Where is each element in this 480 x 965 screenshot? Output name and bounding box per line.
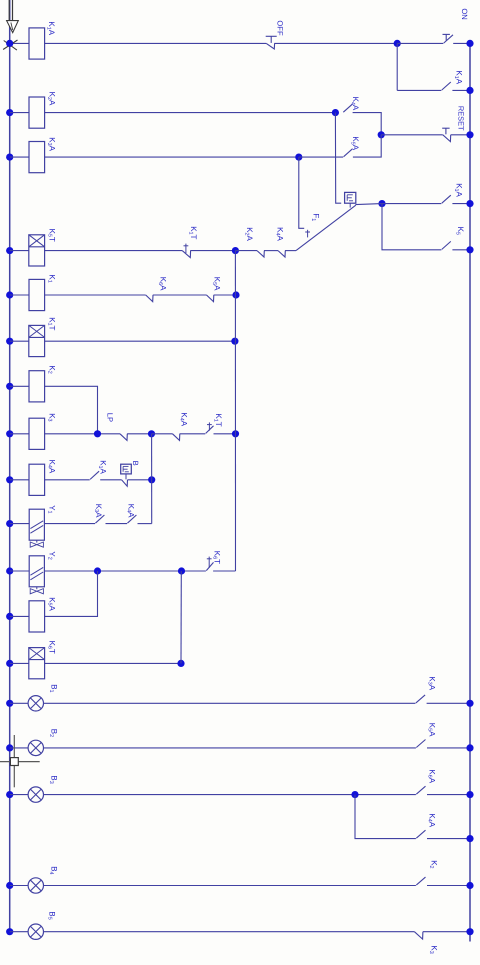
overload F1 sensor box bbox=[345, 192, 356, 203]
node rail rung1 bbox=[6, 40, 13, 47]
svg-text:K2A: K2A bbox=[46, 92, 56, 106]
lamp rung B1 wire left bbox=[10, 702, 28, 704]
svg-text:K4A: K4A bbox=[125, 504, 135, 518]
node rail K5 bbox=[466, 246, 473, 253]
rung 2 wire middle bbox=[45, 112, 336, 114]
node rail rung7 bbox=[6, 338, 13, 345]
svg-text:K4A: K4A bbox=[46, 460, 56, 474]
svg-text:K3: K3 bbox=[46, 413, 56, 421]
svg-text:K4A: K4A bbox=[350, 97, 360, 111]
node rail rung6 bbox=[6, 291, 13, 298]
contact K6A (NC) bbox=[146, 295, 153, 302]
contact K5 (NO) bbox=[442, 241, 451, 249]
node rung10 right bbox=[148, 476, 155, 483]
contact K2 (NO) bbox=[416, 877, 425, 885]
svg-text:F1: F1 bbox=[310, 213, 320, 221]
rung 6 wire left bbox=[10, 294, 29, 296]
contact K4A (NO) bbox=[416, 830, 425, 838]
svg-text:Y1: Y1 bbox=[46, 505, 56, 513]
svg-text:K5: K5 bbox=[455, 227, 465, 235]
vertical wire rung9 to rung11 bbox=[151, 434, 153, 524]
svg-text:OFF: OFF bbox=[276, 20, 285, 36]
svg-text:K1: K1 bbox=[46, 274, 56, 282]
rung 11 wire left bbox=[10, 523, 30, 525]
rung 10 wire left bbox=[10, 479, 29, 481]
rung 12 wire bbox=[44, 570, 206, 572]
lamp B4 bbox=[28, 878, 43, 893]
lamp rung B5 wire left bbox=[10, 931, 28, 933]
node rail K1A bbox=[466, 200, 473, 207]
node rail rung14 bbox=[6, 660, 13, 667]
branch wire to K1A seal contact bbox=[396, 43, 398, 90]
contact K5A (NC) bbox=[207, 295, 214, 302]
relay coil K5A bbox=[29, 601, 45, 632]
rung 1 wire right bbox=[274, 42, 397, 44]
rung 7 wire left bbox=[10, 340, 29, 342]
wire K6T up to bus bbox=[213, 570, 235, 572]
node rail RESET bbox=[466, 131, 473, 138]
svg-text:B5: B5 bbox=[46, 911, 56, 919]
svg-text:K5A: K5A bbox=[427, 723, 437, 737]
node rung2-K4A bbox=[332, 109, 339, 116]
cursor arrow at top of left rail bbox=[8, 0, 10, 21]
svg-text:K6T: K6T bbox=[211, 551, 221, 564]
svg-text:B1: B1 bbox=[48, 684, 58, 692]
svg-text:K1T: K1T bbox=[188, 226, 198, 239]
contact K5A (NO) bbox=[416, 740, 425, 748]
svg-text:K5A: K5A bbox=[350, 136, 360, 150]
svg-text:ON: ON bbox=[460, 8, 469, 19]
node rung14 right bbox=[177, 660, 184, 667]
svg-text:K3A: K3A bbox=[93, 504, 103, 518]
contact K5A (NO) bbox=[344, 149, 353, 157]
node rail lamp B1 bbox=[6, 700, 13, 707]
relay coil K3 bbox=[29, 418, 45, 449]
lamp rung B2 wire left bbox=[10, 747, 28, 749]
node rail rung11 bbox=[6, 520, 13, 527]
relay coil K2A bbox=[29, 97, 45, 128]
lamp B1 bbox=[28, 696, 43, 711]
lamp rung B3 wire left bbox=[10, 794, 28, 796]
relay coil K3A bbox=[29, 142, 45, 173]
svg-text:B4: B4 bbox=[48, 866, 58, 874]
pushbutton ON (NO) bbox=[444, 35, 453, 43]
node rail rung8 bbox=[6, 383, 13, 390]
rung 5 wire 2 bbox=[190, 250, 235, 252]
node rail B4 bbox=[466, 882, 473, 889]
svg-text:K4A: K4A bbox=[178, 412, 188, 426]
contact K2A (NC) bbox=[257, 251, 264, 257]
svg-text:K2: K2 bbox=[428, 860, 438, 868]
rung 14 wire left bbox=[10, 662, 29, 664]
contact K6T (NO timed) bbox=[206, 562, 213, 570]
rung 3 wire left bbox=[10, 156, 29, 158]
rung 6 wire bbox=[45, 294, 146, 296]
svg-text:K1A: K1A bbox=[97, 460, 107, 474]
svg-text:K2A: K2A bbox=[244, 227, 254, 241]
contact K6A (NO) bbox=[416, 786, 425, 794]
node rail rung2 bbox=[6, 109, 13, 116]
svg-text:K5A: K5A bbox=[211, 277, 221, 291]
relay coil K1A bbox=[29, 28, 45, 59]
solenoid valve coil Y2 bbox=[29, 556, 44, 587]
relay coil K1 bbox=[29, 279, 45, 310]
pressure switch B (NC) bbox=[122, 480, 128, 486]
lamp B5 bbox=[28, 924, 43, 939]
node rail ON bbox=[466, 40, 473, 47]
node rail B5 bbox=[466, 928, 473, 935]
svg-text:Y2: Y2 bbox=[46, 551, 56, 559]
svg-text:K3: K3 bbox=[428, 945, 438, 953]
left power rail bbox=[9, 0, 11, 932]
contact K3A (NO) bbox=[416, 695, 425, 703]
lamp B5 wire bbox=[44, 931, 415, 933]
contact K4A (NC) bbox=[278, 251, 285, 257]
rung 7 wire bbox=[45, 340, 235, 342]
node reset bbox=[378, 131, 385, 138]
lamp B3 wire bbox=[44, 794, 416, 796]
lamp B3 bbox=[28, 787, 43, 802]
contact K3A (NO) bbox=[95, 515, 104, 523]
node rung12 mid bbox=[178, 567, 185, 574]
wire F1 to node bbox=[355, 204, 382, 205]
node rung1-branch bbox=[394, 40, 401, 47]
svg-text:RESET: RESET bbox=[456, 106, 465, 131]
stub from rung2 down to F1 bbox=[335, 113, 341, 204]
svg-text:K1T: K1T bbox=[213, 413, 223, 426]
node rung7 bbox=[231, 338, 238, 345]
node rail rung5 bbox=[6, 247, 13, 254]
rung 5 wire bbox=[45, 250, 183, 252]
contact K3 (NC) bbox=[414, 932, 423, 939]
svg-text:K1A: K1A bbox=[46, 21, 56, 35]
node rung9-K2branch bbox=[94, 430, 101, 437]
node rail B2 bbox=[466, 744, 473, 751]
node rail rung10 bbox=[6, 476, 13, 483]
svg-text:K6T: K6T bbox=[46, 641, 56, 654]
node rail B3 bbox=[466, 791, 473, 798]
rung 8 wire bbox=[45, 386, 98, 434]
rung 2 wire left bbox=[10, 112, 29, 114]
pushbutton OFF (NC) bbox=[266, 43, 274, 49]
crosshair cursor bbox=[13, 735, 15, 787]
wire to K1A contact bbox=[382, 203, 441, 205]
wire up to reset node bbox=[353, 135, 381, 157]
contact K1T (NC timed) bbox=[182, 251, 190, 258]
pushbutton RESET (NC) bbox=[443, 135, 451, 142]
vertical bus wire bbox=[234, 251, 236, 571]
lamp B4 wire bbox=[44, 885, 416, 887]
relay coil K2 bbox=[29, 371, 45, 402]
lamp B1 wire bbox=[44, 702, 416, 704]
node rail lamp B2 bbox=[6, 744, 13, 751]
rung 9 wire bbox=[45, 433, 120, 435]
node rung12 left bbox=[94, 567, 101, 574]
lamp B2 wire bbox=[44, 747, 416, 749]
svg-text:K4A: K4A bbox=[427, 813, 437, 827]
svg-text:K5T: K5T bbox=[47, 229, 57, 242]
svg-text:K3A: K3A bbox=[427, 676, 437, 690]
rung 5 wire left bbox=[10, 250, 29, 252]
svg-text:B2: B2 bbox=[48, 729, 58, 737]
rung 10 wire bbox=[45, 479, 90, 481]
svg-text:K5A: K5A bbox=[46, 597, 56, 611]
node rail lamp B5 bbox=[6, 928, 13, 935]
node B3 branch bbox=[351, 791, 358, 798]
rung 1 wire middle bbox=[45, 42, 267, 44]
rung 9 wire left bbox=[10, 433, 29, 435]
node rail K1A seal bbox=[466, 87, 473, 94]
selection cross on node bbox=[3, 40, 17, 50]
timer coil K5T bbox=[29, 235, 45, 266]
svg-text:K6A: K6A bbox=[157, 277, 167, 291]
vertical wire rung12 to rung14 bbox=[180, 571, 182, 663]
svg-text:K3A: K3A bbox=[46, 137, 56, 151]
svg-text:K2: K2 bbox=[46, 365, 56, 373]
timer coil K1T bbox=[29, 325, 45, 356]
node rung9 right bbox=[232, 430, 239, 437]
solenoid valve coil Y1 bbox=[29, 509, 44, 540]
svg-text:K1T: K1T bbox=[46, 317, 56, 330]
rung 14 wire bbox=[45, 662, 181, 664]
node rail lamp B3 bbox=[6, 791, 13, 798]
wire reset bbox=[381, 134, 443, 136]
rung 8 wire left bbox=[10, 385, 29, 387]
wire to reset node bbox=[353, 113, 382, 135]
node rail rung9 bbox=[6, 430, 13, 437]
contact K4A (NO) bbox=[343, 104, 352, 112]
node rail rung12 bbox=[6, 567, 13, 574]
timer coil K6T bbox=[29, 648, 45, 679]
contact K1A (NO) bbox=[442, 195, 451, 203]
svg-text:B3: B3 bbox=[48, 775, 58, 783]
svg-text:K4A: K4A bbox=[275, 227, 285, 241]
node rail rung3 bbox=[6, 154, 13, 161]
rung 1 wire left bbox=[10, 42, 29, 44]
rung 3 wire middle bbox=[45, 156, 299, 158]
contact K1A seal (NO) bbox=[442, 82, 451, 90]
overload contact F1 blade bbox=[296, 205, 356, 250]
contact K1T (NO timed) bbox=[206, 426, 214, 434]
svg-text:K6A: K6A bbox=[427, 769, 437, 783]
rung 12 wire left bbox=[10, 570, 30, 572]
contact K1A (NO) bbox=[90, 471, 99, 479]
node rail rung13 bbox=[6, 613, 13, 620]
stub from rung3 down bbox=[299, 157, 304, 228]
node rung5 bbox=[232, 247, 239, 254]
node rung6 bbox=[232, 291, 239, 298]
node F1 out bbox=[378, 200, 385, 207]
contact K4A (NO) bbox=[127, 515, 136, 523]
lamp rung B4 wire left bbox=[10, 885, 28, 887]
right power rail bbox=[469, 43, 471, 941]
rung 11 wire bbox=[44, 523, 95, 525]
wire down to K5 contact bbox=[382, 204, 441, 250]
contact K4A (NC) bbox=[173, 434, 180, 441]
svg-text:B: B bbox=[131, 461, 140, 466]
node rail lamp B4 bbox=[6, 882, 13, 889]
branch wire B3 to K4A bbox=[355, 795, 416, 839]
node rail B1 bbox=[466, 700, 473, 707]
lamp B2 bbox=[28, 740, 43, 755]
svg-text:LP: LP bbox=[106, 413, 115, 422]
svg-text:K1A: K1A bbox=[453, 70, 463, 84]
rung 13 wire left bbox=[10, 615, 29, 617]
relay coil K4A bbox=[29, 464, 45, 495]
node rung3 bbox=[295, 154, 302, 161]
node rail K4A branch bbox=[466, 835, 473, 842]
svg-text:K1A: K1A bbox=[453, 183, 463, 197]
rung 13 wire bbox=[45, 571, 98, 616]
node rung9 mid bbox=[148, 430, 155, 437]
contact LP (NC) bbox=[120, 434, 127, 441]
